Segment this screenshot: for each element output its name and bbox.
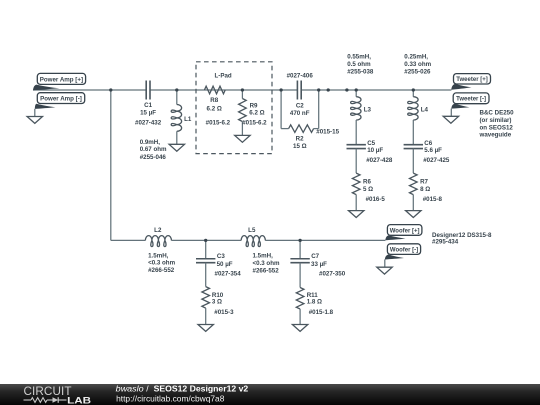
svg-text:C5: C5: [367, 140, 375, 147]
label C5 value: [366, 140, 393, 164]
svg-text:0.25mH,: 0.25mH,: [404, 54, 428, 61]
flag Power Amp [-]: [35, 93, 85, 117]
svg-text:470 nF: 470 nF: [290, 110, 310, 117]
resistor R2 parallel loop: [281, 90, 319, 132]
node junction C7: [298, 239, 301, 242]
svg-text:#015-8: #015-8: [423, 196, 443, 203]
svg-text:0.5 ohm: 0.5 ohm: [347, 61, 371, 68]
label woofer annotation: [432, 232, 492, 246]
resistor R8: [204, 86, 225, 94]
svg-text:B&C DE250: B&C DE250: [480, 110, 515, 117]
label C3 value: [215, 253, 242, 278]
svg-text:3 Ω: 3 Ω: [212, 299, 222, 306]
node junction mid2: [345, 88, 348, 91]
svg-text:15 µF: 15 µF: [140, 110, 156, 117]
svg-text:15 Ω: 15 Ω: [293, 143, 307, 150]
svg-text:R6: R6: [363, 179, 371, 186]
label L2 value: [148, 252, 175, 274]
svg-text:C6: C6: [424, 140, 432, 147]
footer title text: [116, 383, 249, 393]
svg-text:Tweeter [-]: Tweeter [-]: [456, 97, 486, 103]
ground R11: [292, 325, 307, 332]
label L5: [248, 227, 256, 234]
label L1 value: [140, 139, 167, 161]
svg-text:#255-046: #255-046: [140, 154, 167, 161]
node junction at vertical drop: [109, 88, 112, 91]
svg-text:L-Pad: L-Pad: [214, 73, 231, 80]
svg-text:#015-6.2: #015-6.2: [242, 119, 267, 126]
svg-text:#027-406: #027-406: [287, 73, 314, 80]
svg-text:LAB: LAB: [67, 395, 91, 405]
svg-text:on SEOS12: on SEOS12: [480, 124, 514, 131]
label L5 value: [253, 253, 280, 275]
svg-text:L1: L1: [184, 116, 192, 123]
ground R7: [406, 211, 421, 218]
svg-text:SEOS12 Designer12 v2: SEOS12 Designer12 v2: [154, 383, 249, 393]
svg-text:50 µF: 50 µF: [217, 261, 233, 268]
svg-text:#015-1.8: #015-1.8: [309, 309, 334, 316]
svg-text:5.6 µF: 5.6 µF: [424, 147, 442, 154]
svg-text:#027-425: #027-425: [423, 157, 450, 164]
svg-text:Power Amp [+]: Power Amp [+]: [40, 76, 83, 83]
svg-text:waveguide: waveguide: [479, 131, 512, 138]
L-Pad dashed box: [196, 62, 272, 154]
svg-text:1.8 Ω: 1.8 Ω: [307, 299, 322, 306]
footer bar: [0, 384, 540, 405]
node junction L4: [412, 88, 415, 91]
ground R9: [235, 135, 250, 142]
ground power amp: [27, 117, 42, 124]
label R2 value: [293, 129, 340, 151]
label L1: [184, 116, 192, 123]
footer logo resistor-diode glyph: [24, 397, 67, 403]
label R7 value: [420, 179, 442, 203]
svg-text:0.9mH,: 0.9mH,: [140, 139, 161, 146]
ground tweeter: [443, 116, 458, 123]
capacitor C5: [347, 145, 366, 173]
svg-text:Tweeter [+]: Tweeter [+]: [456, 77, 487, 83]
svg-text:C2: C2: [296, 103, 304, 110]
capacitor C1: [146, 81, 150, 100]
svg-text:#027-432: #027-432: [135, 119, 162, 126]
resistor R10: [202, 287, 210, 325]
svg-text:C1: C1: [144, 102, 152, 109]
svg-text:Woofer [-]: Woofer [-]: [390, 248, 418, 254]
svg-text:R8: R8: [210, 97, 218, 104]
svg-text:#027-428: #027-428: [366, 157, 393, 164]
svg-text:33 µF: 33 µF: [311, 261, 327, 268]
svg-text:<0.3 ohm: <0.3 ohm: [253, 260, 280, 267]
svg-text:#015-6.2: #015-6.2: [206, 119, 231, 126]
svg-text:10 µF: 10 µF: [367, 147, 383, 154]
svg-text:L2: L2: [154, 227, 162, 234]
svg-text:R9: R9: [250, 103, 258, 110]
node junction L3: [355, 88, 358, 91]
label R11 value: [307, 292, 334, 316]
footer url text: [116, 393, 225, 403]
wire main top horizontal: [33, 89, 451, 91]
svg-text:#027-354: #027-354: [215, 271, 242, 278]
resistor R6: [352, 173, 360, 211]
label R9 value: [242, 103, 267, 127]
label C2 value: [290, 103, 310, 117]
node junction R9: [241, 88, 244, 91]
svg-text:#015-15: #015-15: [316, 129, 339, 136]
inductor L1: [171, 90, 181, 144]
capacitor C2: [297, 81, 301, 100]
label C2 part number: [287, 73, 314, 80]
label L-Pad: [214, 73, 231, 80]
svg-text:Power Amp [-]: Power Amp [-]: [40, 96, 82, 103]
svg-text:C7: C7: [311, 253, 319, 260]
svg-text:#255-038: #255-038: [347, 68, 374, 75]
ground R10: [198, 325, 213, 332]
svg-text:#016-5: #016-5: [366, 196, 386, 203]
wire main bottom horizontal: [111, 239, 386, 241]
node junction R2 left: [279, 88, 282, 91]
svg-text:#295-434: #295-434: [432, 239, 459, 246]
flag Woofer [+]: [385, 225, 422, 241]
svg-text:#027-350: #027-350: [319, 271, 346, 278]
resistor R9: [239, 90, 247, 135]
flag Tweeter [+]: [451, 74, 490, 90]
node junction R2 right: [317, 88, 320, 91]
svg-text:<0.3 ohm: <0.3 ohm: [148, 260, 175, 267]
capacitor C7: [290, 240, 309, 287]
label R8 value: [206, 97, 231, 126]
ground R6: [349, 211, 364, 218]
capacitor C3: [196, 240, 215, 286]
inductor L2: [145, 236, 171, 247]
capacitor C6: [404, 145, 423, 173]
label C6 value: [423, 140, 450, 164]
wire vertical to woofer section: [110, 90, 112, 240]
svg-text:(or similar): (or similar): [480, 117, 512, 124]
svg-text:#255-026: #255-026: [404, 68, 431, 75]
label L4 value: [404, 54, 431, 76]
svg-text:R2: R2: [296, 136, 304, 143]
svg-text:http://circuitlab.com/cbwq7a8: http://circuitlab.com/cbwq7a8: [116, 393, 225, 403]
svg-text:0.33 ohm: 0.33 ohm: [404, 61, 431, 68]
resistor R7: [410, 173, 418, 211]
node junction C3: [204, 239, 207, 242]
svg-text:0.67 ohm: 0.67 ohm: [140, 146, 167, 153]
flag Woofer [-]: [385, 244, 421, 267]
svg-text:C3: C3: [217, 253, 225, 260]
label L3: [364, 106, 372, 113]
svg-text:8 Ω: 8 Ω: [420, 186, 430, 193]
svg-text:L3: L3: [364, 106, 372, 113]
ground woofer: [377, 267, 392, 274]
inductor L3: [351, 90, 361, 145]
label L2: [154, 227, 162, 234]
svg-text:#266-552: #266-552: [148, 267, 175, 274]
resistor R11: [296, 288, 304, 325]
svg-text:6.2 Ω: 6.2 Ω: [207, 105, 222, 112]
label L4: [421, 106, 429, 113]
svg-text:0.55mH,: 0.55mH,: [347, 54, 371, 61]
svg-text:Woofer [+]: Woofer [+]: [390, 228, 420, 234]
label L3 value: [347, 54, 374, 76]
inductor L5: [241, 236, 265, 247]
svg-text:#266-552: #266-552: [253, 267, 280, 274]
svg-text:R7: R7: [420, 179, 428, 186]
node junction mid1: [327, 88, 330, 91]
svg-text:5 Ω: 5 Ω: [363, 186, 373, 193]
label R10 value: [212, 292, 234, 316]
node junction L1: [175, 88, 178, 91]
inductor L4: [408, 90, 418, 145]
footer logo CIRCUIT: [24, 385, 72, 398]
label R6 value: [363, 179, 385, 203]
footer logo LAB: [67, 395, 91, 405]
label C1 value: [135, 102, 162, 126]
svg-text:L5: L5: [248, 227, 256, 234]
svg-text:bwaslo: bwaslo: [116, 383, 144, 393]
ground L1: [169, 144, 184, 151]
svg-text:1.5mH,: 1.5mH,: [148, 252, 169, 259]
flag Power Amp [+]: [33, 73, 86, 90]
label tweeter annotation: [479, 110, 515, 139]
flag Tweeter [-]: [451, 93, 489, 116]
svg-text:#015-3: #015-3: [214, 309, 234, 316]
svg-text:1.5mH,: 1.5mH,: [253, 253, 274, 260]
svg-text:L4: L4: [421, 106, 429, 113]
svg-text:6.2 Ω: 6.2 Ω: [249, 110, 264, 117]
label C7 value: [311, 253, 346, 278]
svg-text:CIRCUIT: CIRCUIT: [24, 385, 72, 398]
